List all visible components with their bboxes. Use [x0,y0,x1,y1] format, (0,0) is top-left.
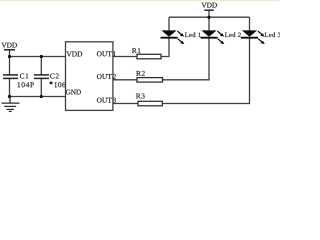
pin OUT2 [97,74,112,79]
IC U1 (LED driver) [66,42,116,111]
pin number 3 [113,98,116,103]
designator C1 [20,74,28,79]
LED Led2 [201,30,241,44]
pin number 2 [113,74,116,79]
wire: anode top rail [169,16,250,18]
designator Led2 [225,32,241,37]
wire: R2 to Led2 cathode [163,38,210,79]
designator Led1 [185,32,201,37]
wire: top net VDD to U1 VDD pin [10,56,66,58]
node: C2 / top net [40,55,43,58]
ground [2,97,20,112]
wire: Led2 anode lead [208,17,210,31]
wire: right VDD stub [208,10,210,17]
value 104P [18,82,34,87]
designator R1 [132,48,140,53]
resistor R1 [132,48,161,59]
capacitor C1 [3,74,34,88]
wire: Led1 anode lead [168,17,170,31]
pin number 1 [113,51,116,56]
resistor R2 [136,71,162,82]
designator Led3 [265,32,281,37]
pin VDD [66,52,82,57]
designator C2 [50,74,59,79]
wire: U1 OUT3 pin to R3 [113,103,138,105]
wire: U1 OUT1 pin to R1 [113,56,137,58]
resistor R3 [136,94,162,106]
node: C2 / ground net [40,95,43,98]
wire: C2 bottom lead [40,78,42,96]
LED Led3 [241,30,281,44]
wire: R3 to Led3 cathode [162,38,249,103]
designator R2 [136,71,145,76]
node: rail / VDD [207,16,210,19]
pin OUT1 [97,51,112,56]
wire: ground net to U1 GND pin [10,96,66,98]
wire: R1 to Led1 cathode [161,38,169,56]
node: VDD / top net [8,55,11,58]
capacitor C2 [34,74,70,88]
pin OUT3 [97,98,112,103]
power VDD (right) [201,3,216,10]
designator R3 [136,94,145,99]
wire: left VDD vertical (power bar to C1 top plate) [9,50,11,75]
power VDD (left) [1,43,16,50]
value *106P [50,82,53,85]
wire: Led3 anode lead [249,17,251,31]
node: ground net left [8,95,11,98]
pin GND [66,90,81,95]
wire: C2 top lead [40,57,42,75]
LED Led1 [161,30,201,44]
wire: U1 OUT2 pin to R2 [113,79,137,81]
wire: C1 bottom plate to ground net [9,78,11,96]
